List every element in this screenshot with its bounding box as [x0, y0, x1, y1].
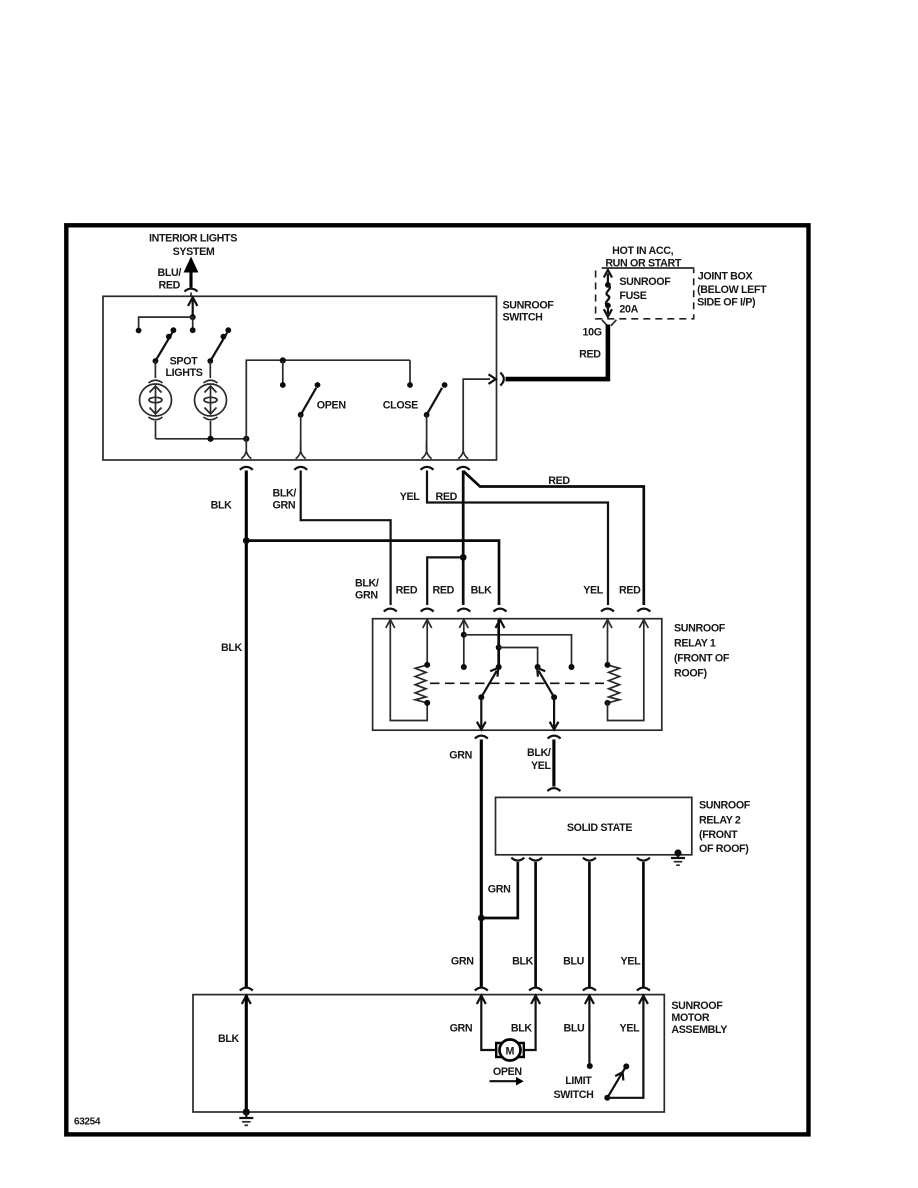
wire BLK/YEL relay1 to relay2: [552, 740, 555, 787]
svg-text:BLU/: BLU/: [157, 267, 181, 279]
wire BLK/GRN to relay 1: [301, 471, 391, 606]
wire CLOSE contact stub: [407, 360, 413, 388]
label OPEN (motor direction): [490, 1066, 524, 1086]
pin arrow motor BLK trunk: [242, 996, 251, 1004]
connector male pin YEL (switch bottom): [422, 441, 432, 459]
connector male pin RED (switch bottom): [458, 441, 468, 459]
svg-text:OF ROOF): OF ROOF): [699, 843, 749, 855]
svg-text:RELAY 1: RELAY 1: [674, 638, 716, 650]
connector female motor pin BLU: [583, 988, 596, 991]
svg-text:BLK: BLK: [211, 500, 233, 512]
svg-text:BLK: BLK: [471, 585, 493, 597]
label BLK/GRN (upper): [273, 488, 297, 512]
svg-text:YEL: YEL: [620, 1023, 641, 1035]
connector male pin BLK/GRN (switch bottom): [296, 441, 306, 459]
connector female relay1 pin2: [421, 609, 434, 612]
svg-text:BLK/: BLK/: [355, 578, 379, 590]
svg-text:ASSEMBLY: ASSEMBLY: [671, 1024, 727, 1036]
connector female motor pin BLK: [529, 988, 542, 991]
svg-text:LIGHTS: LIGHTS: [165, 367, 202, 379]
wire RED branch left to relay 1: [427, 557, 463, 605]
connector female YEL below switch: [421, 467, 434, 470]
wire relay1 pin4 to arm contact: [496, 620, 502, 670]
pin arrow relay1 pin2: [423, 620, 432, 628]
sunroof relay 2 box: [496, 797, 692, 854]
svg-text:BLK/: BLK/: [527, 747, 551, 759]
pin arrow relay1 pin6: [639, 620, 648, 628]
wire right coil bottom to relay1 pin6: [608, 620, 644, 721]
node contact A: [136, 328, 142, 334]
pin arrow motor GRN: [477, 996, 486, 1004]
svg-text:63254: 63254: [74, 1117, 101, 1128]
svg-text:RED: RED: [435, 491, 457, 503]
connector female BLK below switch: [240, 467, 253, 470]
svg-text:SOLID STATE: SOLID STATE: [567, 822, 632, 834]
svg-text:INTERIOR LIGHTS: INTERIOR LIGHTS: [149, 233, 237, 245]
label SUNROOF MOTOR ASSEMBLY: [671, 1000, 727, 1036]
pin arrow relay1 pin1: [386, 620, 395, 628]
svg-text:RED: RED: [432, 585, 454, 597]
wire feed bus to OPEN/CLOSE: [246, 360, 410, 440]
svg-text:YEL: YEL: [621, 956, 642, 968]
svg-text:HOT IN ACC,: HOT IN ACC,: [612, 245, 673, 257]
ground relay 2: [671, 849, 685, 865]
wire switch feed bus: [139, 317, 193, 330]
svg-text:SUNROOF: SUNROOF: [699, 800, 751, 812]
junction RED branch: [460, 554, 467, 561]
label JOINT BOX (BELOW LEFT SIDE OF I/P): [697, 270, 767, 308]
junction BLK branch: [243, 537, 250, 544]
sunroof switch box: [103, 296, 497, 460]
node INTERIOR LIGHTS SYSTEM: [149, 233, 237, 259]
wire RED from switch down: [462, 471, 465, 606]
wire relay1 pin4 cross to right arm contact: [499, 648, 541, 671]
svg-text:RED: RED: [619, 585, 641, 597]
svg-text:BLK/: BLK/: [273, 488, 297, 500]
wire RED feed over to relay 1 right side: [463, 471, 644, 605]
wire lamps common to BLK pin: [156, 436, 250, 442]
connector female relay2 out2 BLK: [529, 858, 542, 861]
connector female relay2 top: [547, 788, 560, 791]
svg-text:GRN: GRN: [450, 1023, 473, 1035]
svg-text:SUNROOF: SUNROOF: [671, 1000, 723, 1012]
wire RED fuse to switch (heavy): [506, 325, 608, 380]
wire BLU to limit switch contact: [587, 996, 593, 1069]
connector female at switch right edge: [500, 373, 504, 386]
switch CLOSE: [424, 382, 448, 450]
label SUNROOF SWITCH: [503, 299, 555, 323]
connector female relay1 pin5: [601, 609, 614, 612]
pin arrow motor BLU: [585, 996, 594, 1004]
svg-text:RED: RED: [548, 475, 570, 487]
svg-text:OPEN: OPEN: [317, 400, 346, 412]
connector female relay1 pin6: [637, 609, 650, 612]
wire relay1 pin3 to contact: [461, 620, 467, 670]
wire BLU relay2 to motor: [588, 862, 591, 987]
svg-text:GRN: GRN: [488, 884, 511, 896]
label BLK/YEL: [527, 747, 552, 772]
label SPOT LIGHTS: [165, 355, 202, 379]
svg-text:M: M: [506, 1046, 515, 1058]
coil relay1 right: [605, 662, 620, 706]
wire BLU/RED to interior lights (arrow off-page): [184, 257, 199, 288]
svg-text:(FRONT: (FRONT: [699, 829, 738, 841]
wire YEL to limit switch: [607, 996, 643, 1098]
fuse SUNROOF FUSE 20A: [604, 270, 612, 317]
svg-text:GRN: GRN: [273, 500, 296, 512]
lamp spot light left: [140, 361, 172, 439]
svg-text:BLU: BLU: [563, 1023, 585, 1035]
wire BLK ground run: [245, 996, 248, 1112]
connector female BLK/YEL below relay1: [548, 736, 561, 739]
junction node in switch: [190, 314, 196, 320]
svg-text:RED: RED: [579, 348, 601, 360]
svg-text:YEL: YEL: [531, 760, 552, 772]
sunroof relay 1 box: [373, 619, 662, 731]
pin arrow motor YEL: [639, 996, 648, 1004]
connector female relay1 pin4: [494, 609, 507, 612]
connector 10G below joint box: [602, 320, 617, 326]
svg-text:RED: RED: [158, 280, 180, 292]
wire relay1 right arm to BLK/YEL pin: [550, 697, 559, 729]
relay1 left arm: [478, 668, 498, 700]
connector female relay2 out3 BLU: [583, 858, 596, 861]
connector female RED below switch: [457, 467, 470, 470]
wire BLK relay2 to motor: [534, 862, 537, 987]
svg-text:SWITCH: SWITCH: [503, 311, 543, 323]
ground motor assembly: [239, 1108, 253, 1125]
wire relay1 pin3 cross to right contact: [464, 635, 575, 670]
svg-text:GRN: GRN: [449, 750, 472, 762]
svg-text:SPOT: SPOT: [170, 355, 199, 367]
svg-text:BLK: BLK: [512, 956, 534, 968]
svg-text:RED: RED: [396, 585, 418, 597]
svg-text:GRN: GRN: [451, 956, 474, 968]
label BLK/GRN (at relay): [355, 578, 379, 602]
lamp spot light right: [195, 361, 227, 439]
svg-text:(FRONT OF: (FRONT OF: [674, 653, 730, 665]
label HOT IN ACC, RUN OR START: [605, 245, 682, 269]
connector female motor pin GRN: [475, 988, 488, 991]
connector female BLK/GRN below switch: [294, 467, 307, 470]
svg-text:BLK: BLK: [221, 642, 243, 654]
svg-text:RELAY 2: RELAY 2: [699, 815, 741, 827]
motor M (sunroof motor): [496, 1040, 524, 1061]
svg-text:FUSE: FUSE: [619, 290, 646, 302]
switch OPEN: [298, 382, 321, 450]
svg-text:OPEN: OPEN: [493, 1066, 522, 1078]
svg-text:SIDE OF I/P): SIDE OF I/P): [697, 297, 756, 309]
connector female relay2 out4 YEL: [637, 858, 650, 861]
wire YEL to relay 1: [427, 471, 608, 606]
junction OPEN feed: [280, 357, 286, 388]
wire relay1 left arm to GRN pin: [477, 697, 486, 729]
svg-text:20A: 20A: [619, 304, 638, 316]
relay1 right arm: [537, 668, 557, 700]
label SUNROOF RELAY 1 (FRONT OF ROOF): [674, 623, 730, 680]
wire relay1 pin1 to coil bottom: [390, 620, 427, 721]
svg-text:JOINT BOX: JOINT BOX: [698, 270, 754, 282]
label LIMIT SWITCH: [553, 1075, 593, 1101]
svg-text:CLOSE: CLOSE: [383, 400, 418, 412]
wire BLK branch to relay 1: [246, 541, 499, 605]
switch spot light right: [207, 327, 231, 364]
wire GRN relay2 branch to trunk: [483, 862, 518, 918]
connector female at sunroof switch pin (interior lights): [185, 289, 198, 297]
pin arrow relay1 pin3: [459, 620, 468, 628]
coil relay1 left: [415, 662, 430, 706]
switch spot light left: [153, 327, 177, 364]
connector female relay2 out1 GRN: [511, 858, 524, 861]
wire YEL relay2 to motor: [642, 862, 645, 987]
svg-text:MOTOR: MOTOR: [671, 1012, 709, 1024]
connector female motor pin YEL: [637, 988, 650, 991]
svg-text:LIMIT: LIMIT: [565, 1075, 592, 1087]
limit switch: [604, 1063, 629, 1100]
svg-text:SWITCH: SWITCH: [553, 1089, 593, 1101]
connector female motor pin BLK trunk: [240, 988, 253, 991]
connector female relay1 pin3: [457, 609, 470, 612]
wire switch power feed from fuse: [463, 374, 496, 450]
wire BLK trunk: [245, 471, 248, 988]
label SUNROOF FUSE 20A: [619, 276, 671, 316]
svg-text:BLK: BLK: [218, 1033, 240, 1045]
svg-text:SUNROOF: SUNROOF: [674, 623, 726, 635]
wire GRN trunk: [478, 740, 485, 988]
wire GRN to motor terminal: [481, 996, 495, 1050]
svg-text:YEL: YEL: [400, 491, 421, 503]
svg-text:YEL: YEL: [583, 585, 604, 597]
node contact B: [190, 327, 196, 333]
svg-text:GRN: GRN: [355, 590, 378, 602]
svg-text:SYSTEM: SYSTEM: [173, 246, 215, 258]
svg-text:SUNROOF: SUNROOF: [503, 299, 555, 311]
svg-text:(BELOW LEFT: (BELOW LEFT: [697, 284, 767, 296]
wire relay1 pin5 to right coil: [607, 620, 609, 665]
joint box (dashed): [596, 268, 695, 319]
pin arrow relay1 pin4: [496, 620, 505, 628]
pin arrow relay1 pin5: [603, 620, 612, 628]
svg-text:BLU: BLU: [563, 956, 585, 968]
connector female relay1 pin1: [384, 609, 397, 612]
svg-text:BLK: BLK: [511, 1023, 533, 1035]
svg-text:ROOF): ROOF): [674, 668, 707, 680]
wire BLK to motor terminal: [525, 996, 536, 1050]
pin arrow motor BLK: [531, 996, 540, 1004]
mechanical link (dashed): [430, 682, 604, 684]
svg-text:10G: 10G: [583, 327, 602, 339]
label BLU/RED: [157, 267, 181, 292]
connector male pin top of switch (to interior lights): [188, 297, 197, 317]
connector female GRN below relay1: [475, 736, 488, 739]
sunroof motor assembly box: [193, 995, 664, 1112]
label SUNROOF RELAY 2 (FRONT OF ROOF): [699, 800, 751, 856]
connector male pin BLK (switch bottom): [241, 440, 251, 459]
svg-text:SUNROOF: SUNROOF: [619, 276, 671, 288]
wire relay1 pin2 to coil top: [426, 620, 428, 665]
